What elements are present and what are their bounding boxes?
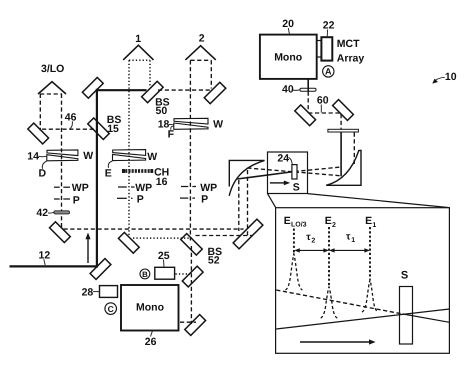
svg-text:22: 22: [323, 20, 335, 32]
svg-text:LO/3: LO/3: [291, 221, 307, 229]
svg-text:2: 2: [199, 33, 205, 45]
svg-text:E: E: [325, 215, 332, 227]
svg-text:S: S: [293, 181, 300, 193]
svg-text:WP: WP: [135, 182, 152, 194]
svg-text:Array: Array: [337, 52, 365, 64]
svg-text:12: 12: [39, 249, 51, 261]
svg-text:P: P: [201, 194, 208, 206]
svg-text:W: W: [213, 118, 223, 130]
svg-text:B: B: [142, 270, 148, 279]
svg-text:1: 1: [372, 222, 376, 229]
svg-text:60: 60: [317, 95, 329, 107]
svg-text:W: W: [147, 151, 157, 163]
svg-text:E: E: [365, 215, 372, 227]
svg-text:16: 16: [156, 176, 168, 188]
svg-text:46: 46: [65, 112, 77, 124]
svg-text:26: 26: [145, 336, 157, 348]
svg-text:S: S: [401, 269, 408, 281]
svg-text:A: A: [325, 67, 332, 77]
svg-text:C: C: [108, 304, 114, 314]
svg-text:50: 50: [156, 105, 168, 117]
svg-text:40: 40: [282, 84, 294, 96]
svg-text:E: E: [105, 167, 112, 179]
svg-text:MCT: MCT: [337, 38, 360, 50]
svg-text:3/LO: 3/LO: [41, 63, 64, 75]
svg-text:25: 25: [158, 250, 170, 262]
svg-text:Mono: Mono: [274, 52, 302, 64]
svg-text:F: F: [168, 128, 175, 140]
svg-text:Mono: Mono: [136, 301, 164, 313]
svg-text:10: 10: [445, 71, 457, 83]
svg-text:20: 20: [282, 18, 294, 30]
svg-text:15: 15: [107, 123, 119, 135]
svg-text:D: D: [39, 168, 47, 180]
svg-text:P: P: [73, 194, 80, 206]
svg-text:2: 2: [332, 222, 336, 229]
svg-text:28: 28: [82, 287, 94, 299]
svg-text:2: 2: [311, 238, 315, 245]
svg-text:1: 1: [351, 237, 355, 244]
svg-text:P: P: [137, 194, 144, 206]
svg-text:24: 24: [277, 152, 289, 164]
svg-text:14: 14: [27, 151, 39, 163]
svg-text:W: W: [83, 150, 93, 162]
svg-text:E: E: [284, 215, 291, 227]
svg-text:1: 1: [135, 33, 141, 45]
svg-text:WP: WP: [200, 182, 217, 194]
svg-text:WP: WP: [72, 182, 89, 194]
svg-text:42: 42: [36, 207, 48, 219]
svg-text:52: 52: [208, 255, 220, 267]
